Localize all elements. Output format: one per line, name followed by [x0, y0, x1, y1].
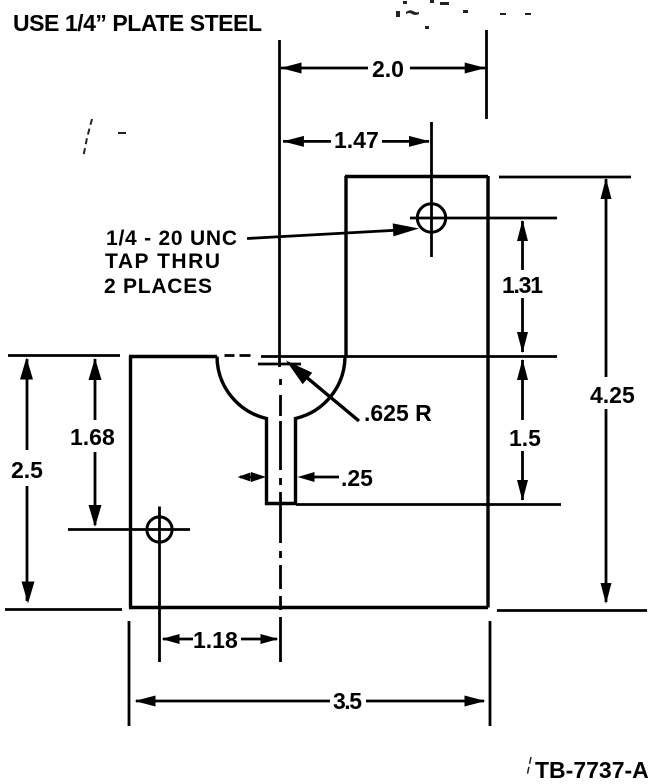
3.5 left arrowhead	[135, 696, 156, 707]
stray scan marks top	[396, 0, 531, 29]
1.18 right arrowhead	[261, 634, 279, 644]
2.0 right arrowhead	[465, 63, 486, 74]
1.68 up arrowhead	[89, 358, 102, 380]
.625R leader arrowhead	[286, 361, 312, 385]
svg-text:TB-7737-A: TB-7737-A	[535, 757, 649, 783]
upper hole horizontal centerline / 1.31 extension	[410, 217, 557, 220]
4.25 bottom extension	[497, 609, 647, 612]
1.5 up arrowhead	[517, 359, 528, 380]
1.47 left arrowhead	[283, 136, 304, 147]
svg-text:3.5: 3.5	[333, 688, 362, 714]
1.31 up arrowhead	[517, 220, 528, 241]
svg-text:TAP THRU: TAP THRU	[105, 250, 220, 273]
step line left extension	[8, 354, 120, 357]
plate outline: tab left edge	[344, 176, 347, 356]
1.18 left arrowhead	[162, 634, 180, 644]
svg-text:1.68: 1.68	[70, 424, 115, 450]
.25 dimension right arrow tail	[310, 476, 339, 479]
1.47 right arrowhead	[409, 136, 430, 147]
1.31 down arrowhead	[517, 332, 528, 353]
2.0 left arrowhead	[281, 63, 302, 74]
plate outline: left edge	[129, 356, 132, 608]
.25 dimension left arrow tail	[240, 476, 252, 479]
1.47 dimension line	[283, 140, 429, 143]
1.18 dimension line	[163, 638, 277, 641]
3.5 left extension	[128, 621, 131, 726]
upper tapped hole	[417, 204, 445, 232]
.25 left arrow double head left tip	[238, 473, 251, 482]
.25 left arrow double head right tip	[251, 472, 266, 482]
1.5 down arrowhead	[517, 480, 528, 501]
svg-text:.625 R: .625 R	[364, 400, 432, 426]
svg-text:1.47: 1.47	[334, 127, 379, 153]
svg-text:.25: .25	[341, 465, 373, 491]
leader line for 1/4-20 UNC note	[247, 230, 400, 239]
svg-text:4.25: 4.25	[590, 382, 635, 408]
step line right extension	[261, 355, 557, 358]
notch .625R semicircle with slot	[217, 357, 345, 504]
1.31 dimension line	[521, 221, 524, 352]
svg-text:1/4 - 20 UNC: 1/4 - 20 UNC	[106, 227, 237, 250]
4.25 up arrowhead	[601, 178, 612, 199]
stray pencil slash left	[83, 119, 92, 158]
1.68 dimension line	[94, 359, 97, 525]
main vertical centerline dash-dot lower part	[279, 379, 282, 662]
step line phantom dashes across notch	[225, 354, 251, 357]
2.0 dimension line	[281, 67, 485, 70]
.25 right arrowhead	[298, 472, 315, 482]
4.25 down arrowhead	[601, 583, 612, 604]
3.5 right extension	[489, 621, 492, 726]
upper hole vertical centerline	[430, 122, 433, 257]
main vertical centerline solid upper part (2.0 left extension)	[278, 40, 281, 367]
plate outline: right edge	[486, 176, 489, 608]
2.5 down arrowhead	[22, 582, 35, 604]
bottom edge left extension	[5, 608, 122, 611]
stray slash before TB number	[527, 757, 531, 776]
svg-text:2 PLACES: 2 PLACES	[104, 275, 212, 298]
UNC leader arrowhead	[393, 223, 419, 236]
stray pencil dash left	[118, 132, 126, 134]
plate outline: step edge left of notch	[129, 355, 217, 358]
2.0 right extension line	[485, 30, 488, 119]
plate outline: bottom edge	[129, 606, 488, 609]
4.25 dimension line	[605, 179, 608, 602]
svg-text:2.0: 2.0	[372, 56, 404, 82]
1.68 down arrowhead	[89, 505, 102, 527]
short tick below notch center	[258, 363, 301, 366]
svg-text:1.5: 1.5	[509, 425, 541, 451]
svg-text:2.5: 2.5	[11, 457, 43, 483]
lower hole vertical centerline / 1.18 extension	[158, 507, 161, 663]
2.5 up arrowhead	[20, 358, 33, 380]
svg-text:1.31: 1.31	[502, 272, 543, 298]
1.5 dimension line	[521, 360, 524, 500]
3.5 right arrowhead	[465, 696, 486, 707]
slot bottom right extension	[296, 503, 561, 506]
svg-text:USE 1/4” PLATE STEEL: USE 1/4” PLATE STEEL	[13, 10, 262, 36]
leader line for .625 R	[293, 366, 359, 421]
plate outline: top tab top edge	[345, 175, 488, 178]
lower tapped hole	[147, 517, 172, 542]
svg-text:1.18: 1.18	[193, 627, 238, 653]
4.25 top extension	[499, 176, 631, 179]
3.5 dimension line	[136, 700, 484, 703]
2.5 dimension line	[26, 359, 29, 601]
lower hole horizontal centerline	[68, 528, 190, 531]
